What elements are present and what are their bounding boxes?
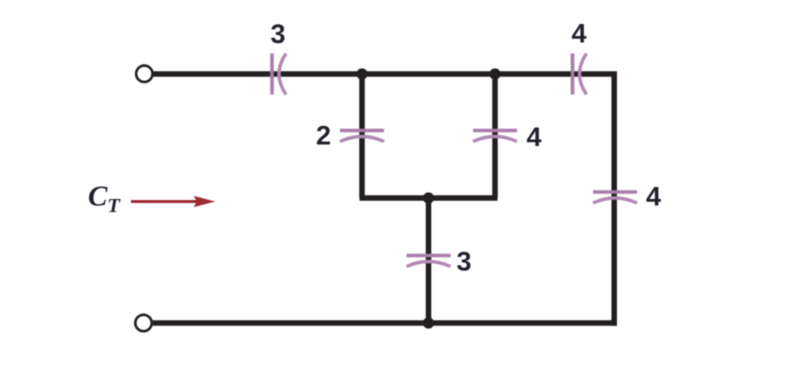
capacitor C3 xyxy=(473,131,517,142)
value label 3 for C1 xyxy=(270,19,285,49)
svg-text:4: 4 xyxy=(646,182,661,212)
wire top bus xyxy=(153,71,617,77)
wire middle branch xyxy=(426,198,432,323)
value label 2 for C2 xyxy=(316,121,331,151)
wire bottom bus xyxy=(153,320,617,326)
svg-text:3: 3 xyxy=(270,19,285,49)
svg-text:CT: CT xyxy=(88,181,121,218)
wire inner bottom xyxy=(360,195,498,201)
node A xyxy=(356,68,367,79)
capacitor C2 xyxy=(340,131,384,142)
wire left inner branch xyxy=(359,71,365,198)
node D xyxy=(423,317,434,328)
node B xyxy=(489,68,500,79)
wire right inner branch xyxy=(492,71,498,198)
svg-text:4: 4 xyxy=(526,122,541,152)
label CT xyxy=(88,181,121,218)
terminal top-left xyxy=(136,66,152,82)
capacitor C4 xyxy=(407,256,451,267)
capacitor C6 xyxy=(593,192,637,203)
terminal bottom-left xyxy=(135,315,151,331)
svg-text:2: 2 xyxy=(316,121,331,151)
capacitor C5 xyxy=(573,54,587,95)
capacitor C1 xyxy=(272,54,286,95)
arrow CT xyxy=(131,196,215,207)
value label 3 for C4 xyxy=(456,247,471,277)
value label 4 for C3 xyxy=(526,122,541,152)
value label 4 for C5 xyxy=(571,19,586,49)
wire right vertical xyxy=(611,72,617,326)
value label 4 for C6 xyxy=(646,182,661,212)
svg-text:4: 4 xyxy=(571,19,586,49)
svg-text:3: 3 xyxy=(456,247,471,277)
node C xyxy=(423,192,434,203)
